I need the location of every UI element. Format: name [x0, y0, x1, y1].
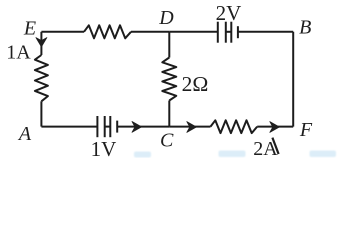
wire D to battery 2V — [169, 31, 218, 33]
svg-text:2Ω: 2Ω — [182, 72, 209, 96]
wire A to battery 1V — [41, 126, 97, 128]
highlight smudge 3 — [310, 151, 337, 158]
svg-text:A: A — [17, 123, 32, 145]
svg-text:1V: 1V — [91, 137, 117, 158]
battery 2V plate 3 — [230, 22, 232, 43]
wire R3 to A — [40, 101, 42, 126]
wire R1 to D — [131, 31, 169, 33]
current arrow 2A before F pointing right — [270, 122, 280, 133]
battery 2V inner link wire — [226, 31, 232, 33]
wire C to R2 — [169, 126, 210, 128]
svg-text:2V: 2V — [216, 1, 242, 25]
battery 1V plate 3 — [109, 116, 111, 137]
svg-text:C: C — [160, 130, 174, 152]
battery 2V plate 2 — [225, 22, 227, 43]
svg-text:F: F — [299, 119, 313, 141]
highlight smudge 1 — [134, 152, 151, 158]
wire R4 to C — [168, 101, 170, 127]
current arrow 1A pointing down — [36, 38, 47, 47]
wire battery 2V to B corner — [238, 31, 293, 33]
resistor R1 (between E and D) — [84, 25, 131, 38]
wire B to F (right side) — [292, 32, 294, 127]
wire E down to R3 — [40, 32, 42, 55]
resistor R3 (between E and A) — [35, 55, 48, 101]
current arrow on A-C wire pointing right — [132, 122, 142, 133]
battery 1V inner link wire — [105, 126, 111, 128]
svg-text:E: E — [23, 17, 36, 39]
svg-text:1A: 1A — [6, 41, 31, 63]
wire battery 1V to C — [117, 126, 169, 128]
resistor R4 2ohm (between D and C) — [162, 58, 176, 101]
battery 2V plate 1 — [217, 22, 219, 43]
svg-text:B: B — [299, 17, 311, 39]
highlight smudge 2 — [219, 151, 246, 158]
wire E to R1 (top left) — [41, 31, 84, 33]
wire D down to R4 — [168, 32, 170, 58]
overstrike stroke on A of 2A — [272, 138, 278, 154]
battery 1V plate 4 — [116, 121, 118, 133]
resistor R2 (between C and F) — [211, 120, 258, 133]
current arrow after C pointing right — [187, 122, 197, 133]
battery 2V plate 4 — [237, 26, 239, 38]
svg-text:D: D — [158, 7, 174, 29]
battery 1V plate 1 — [96, 116, 98, 137]
wire F corner to R2 — [257, 126, 293, 128]
battery 1V plate 2 — [104, 116, 106, 137]
